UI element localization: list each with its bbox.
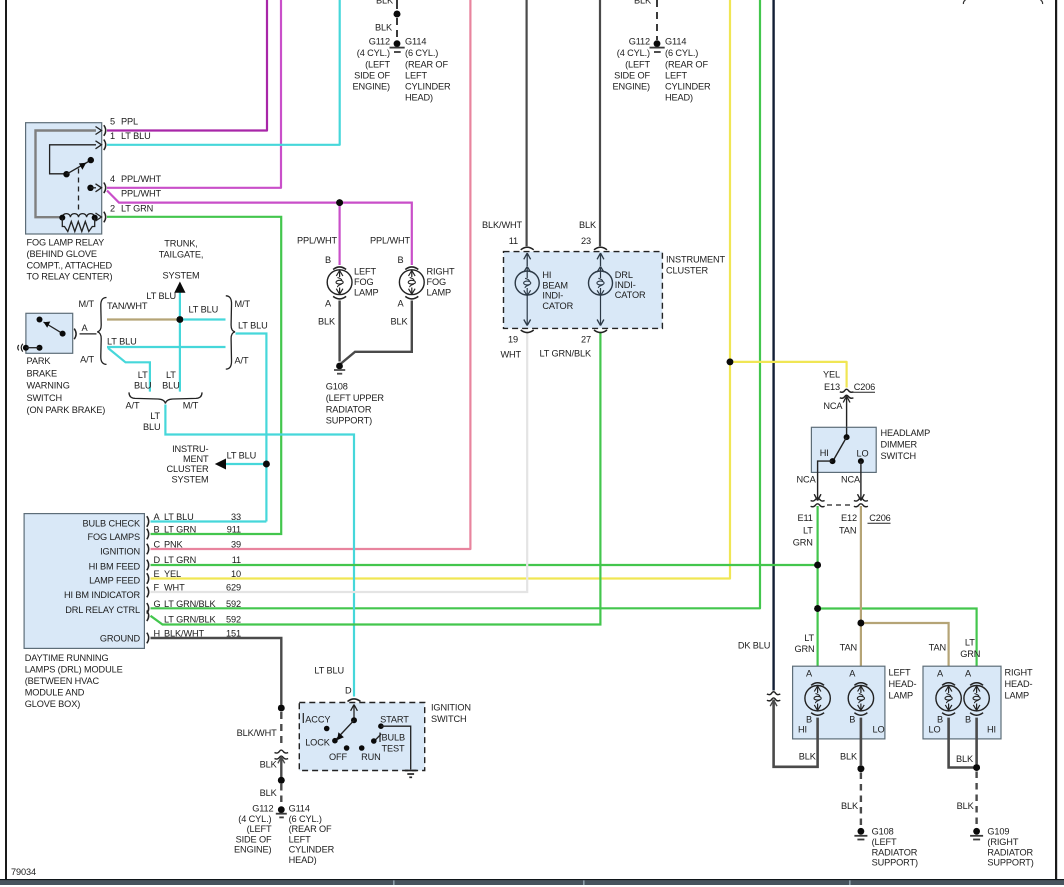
svg-text:D: D: [345, 686, 352, 696]
svg-text:10: 10: [231, 569, 241, 579]
svg-text:LT BLU: LT BLU: [146, 291, 176, 301]
svg-text:TEST: TEST: [382, 744, 406, 754]
svg-text:BLK: BLK: [260, 788, 278, 798]
svg-text:BLK: BLK: [840, 752, 858, 762]
START contact dot: [378, 723, 384, 729]
DRL module box: [24, 514, 144, 649]
svg-text:A: A: [849, 669, 856, 679]
svg-text:SIDE OF: SIDE OF: [354, 71, 390, 81]
svg-text:B: B: [397, 255, 403, 265]
svg-text:RADIATOR: RADIATOR: [326, 404, 372, 414]
svg-text:LAMP: LAMP: [889, 691, 914, 701]
svg-text:E: E: [154, 569, 160, 579]
wire PPL/WHT from relay pin 4 up to top edge: [107, 0, 281, 188]
svg-text:A: A: [965, 669, 972, 679]
junction dot E11/right headlamp: [814, 605, 821, 612]
svg-text:C206: C206: [854, 382, 875, 392]
svg-text:HEADLAMP: HEADLAMP: [881, 428, 931, 438]
svg-text:BLK: BLK: [634, 0, 652, 6]
left arrow to instrument cluster system: [215, 459, 226, 470]
svg-text:(6 CYL.): (6 CYL.): [289, 814, 322, 824]
svg-text:SUPPORT): SUPPORT): [872, 858, 918, 868]
chassis arcs left of box: [18, 344, 23, 352]
svg-text:BULB CHECK: BULB CHECK: [82, 519, 141, 529]
svg-text:LEFT: LEFT: [665, 71, 687, 81]
wire WHT pin F to cluster pin 19: [151, 332, 528, 592]
svg-text:11: 11: [232, 555, 241, 565]
svg-text:TAN/WHT: TAN/WHT: [107, 301, 148, 311]
svg-text:SYSTEM: SYSTEM: [162, 271, 199, 281]
svg-text:HI BM FEED: HI BM FEED: [89, 562, 141, 572]
svg-text:MENT: MENT: [183, 454, 209, 464]
svg-text:NCA: NCA: [823, 401, 843, 411]
wire LT BLU from right brace to module pin A vertical: [236, 334, 267, 522]
bottom toolbar band: [0, 879, 1064, 880]
junction dot on YEL wire: [727, 359, 734, 366]
svg-text:G114: G114: [665, 37, 686, 47]
svg-text:G112: G112: [252, 804, 273, 814]
svg-text:SUPPORT): SUPPORT): [326, 416, 372, 426]
relay switch common dot: [63, 171, 69, 177]
junction dot TAN: [858, 620, 865, 627]
svg-text:GRN: GRN: [960, 649, 980, 659]
relay internal wire pin1 to switch common: [50, 145, 96, 174]
svg-text:HEAD): HEAD): [289, 855, 317, 865]
junction dot: [394, 11, 401, 18]
wire LT GRN (DRL relay ctrl, pin G) up to top edge: [151, 0, 761, 608]
svg-text:HI: HI: [987, 724, 996, 734]
svg-text:BLU: BLU: [143, 422, 161, 432]
svg-text:592: 592: [226, 615, 241, 625]
svg-text:LEFT: LEFT: [405, 71, 427, 81]
wire BLK/WHT pin H to bottom ground: [151, 638, 282, 705]
junction LT BLU bulb check branch: [263, 461, 270, 468]
svg-text:WARNING: WARNING: [27, 381, 70, 391]
junction LT GRN E11/right headlamp node: [814, 605, 821, 612]
left headlamp box: [793, 666, 885, 739]
wire LT GRN to right headlamp HI: [818, 609, 977, 682]
wire LT GRN/BLK (2nd) to cluster pin 27: [151, 332, 601, 625]
up arrow to trunk tailgate system: [174, 282, 185, 293]
svg-text:C206: C206: [869, 513, 890, 523]
svg-text:TAN: TAN: [840, 643, 857, 653]
ignition common dot: [351, 717, 357, 723]
svg-text:(REAR OF: (REAR OF: [405, 60, 448, 70]
svg-text:INSTRUMENT: INSTRUMENT: [666, 255, 726, 265]
svg-text:M/T: M/T: [235, 299, 251, 309]
svg-text:MODULE AND: MODULE AND: [25, 688, 85, 698]
svg-text:RUN: RUN: [361, 752, 381, 762]
svg-text:DAYTIME RUNNING: DAYTIME RUNNING: [25, 653, 109, 663]
svg-text:PPL: PPL: [121, 117, 138, 127]
junction BLK/WHT ground lead: [278, 705, 285, 712]
svg-text:LT: LT: [803, 526, 813, 536]
svg-text:FOG: FOG: [427, 277, 447, 287]
svg-text:CYLINDER: CYLINDER: [405, 82, 451, 92]
svg-text:DRL RELAY CTRL: DRL RELAY CTRL: [65, 605, 140, 615]
svg-text:RADIATOR: RADIATOR: [872, 847, 918, 857]
park brake switch upper contact dot: [37, 317, 43, 323]
junction LT GRN E11/pin D node: [814, 562, 821, 569]
svg-text:CATOR: CATOR: [615, 290, 646, 300]
relay pin arrows: [96, 127, 102, 222]
svg-text:B: B: [965, 715, 971, 725]
top-right brace tick right: [1041, 0, 1043, 4]
svg-text:DRL: DRL: [615, 270, 633, 280]
svg-text:LT GRN: LT GRN: [164, 525, 196, 535]
svg-text:BLK: BLK: [260, 760, 278, 770]
svg-text:79034: 79034: [11, 867, 36, 877]
svg-text:LO: LO: [872, 724, 884, 734]
wire TAN to right headlamp LO: [861, 623, 949, 681]
svg-text:LT GRN/BLK: LT GRN/BLK: [164, 615, 217, 625]
svg-text:G108: G108: [326, 382, 348, 392]
svg-text:LT GRN/BLK: LT GRN/BLK: [164, 599, 217, 609]
wire LT BLU pin A up to park brake net: [151, 520, 267, 522]
svg-text:BLK: BLK: [376, 0, 394, 6]
svg-text:G109: G109: [987, 827, 1009, 837]
svg-text:39: 39: [231, 540, 241, 550]
dimmer switch common dot and blade: [846, 427, 848, 437]
wire LT GRN relay pin 2 to module pin B: [107, 217, 281, 534]
wire LT BLU branch to instrument cluster system arrow: [225, 463, 267, 465]
svg-text:ENGINE): ENGINE): [353, 82, 391, 92]
pin 27 cup and labels: [594, 330, 607, 333]
svg-text:BLK: BLK: [841, 801, 859, 811]
wire LT GRN E11 down to left headlamp HI: [816, 506, 818, 681]
svg-text:BLK: BLK: [375, 23, 393, 33]
svg-text:BLK: BLK: [390, 317, 408, 327]
junction PPL/WHT fog lamps: [336, 199, 343, 206]
svg-text:WHT: WHT: [500, 350, 521, 360]
wire BLK dashed to ground G112/G114 (left, x=397): [396, 0, 398, 9]
svg-text:COMPT., ATTACHED: COMPT., ATTACHED: [27, 260, 113, 270]
drl indicator bulb: [597, 253, 604, 266]
OFF contact dot: [344, 745, 350, 751]
svg-text:BEAM: BEAM: [542, 280, 568, 290]
wire BLK from break to left headlamp HI pin B: [774, 700, 818, 767]
svg-text:LT: LT: [804, 633, 814, 643]
headlamp dimmer switch box: [811, 427, 876, 472]
svg-text:SIDE OF: SIDE OF: [236, 834, 272, 844]
svg-text:CYLINDER: CYLINDER: [289, 845, 335, 855]
wire LT BLU from brace to ignition switch D: [165, 405, 354, 697]
svg-text:B: B: [849, 715, 855, 725]
park brake switch blade with arrow: [44, 322, 63, 334]
relay actuator dashed link: [78, 169, 80, 214]
wire BLK/WHT down to instrument cluster pin 11: [525, 0, 527, 246]
wire LT GRN pin D to E11 node: [151, 564, 818, 566]
svg-text:A/T: A/T: [80, 355, 94, 365]
svg-text:FOG LAMP RELAY: FOG LAMP RELAY: [27, 238, 105, 248]
svg-text:RIGHT: RIGHT: [427, 267, 455, 277]
BULB TEST contact: [374, 734, 381, 741]
ground G108 left radiator support: [858, 828, 865, 835]
svg-text:HEAD-: HEAD-: [1005, 679, 1033, 689]
svg-text:911: 911: [227, 525, 241, 535]
svg-text:LT: LT: [138, 370, 148, 380]
svg-text:LEFT: LEFT: [889, 667, 911, 677]
svg-text:A: A: [82, 323, 89, 333]
wire PPL from relay pin 5 up to top edge: [107, 0, 267, 131]
svg-text:BLK: BLK: [579, 220, 597, 230]
svg-text:INSTRU-: INSTRU-: [172, 444, 208, 454]
svg-text:4: 4: [110, 174, 115, 184]
svg-text:BLK: BLK: [956, 754, 974, 764]
wire PNK pin C of DRL module up to top edge: [151, 0, 471, 549]
wire BLK dashed to ground G112/G114 (right, x=657): [656, 0, 658, 40]
svg-text:NCA: NCA: [841, 475, 861, 485]
svg-text:CLUSTER: CLUSTER: [166, 464, 209, 474]
left brace M/T-A/T: [97, 298, 106, 365]
svg-text:ENGINE): ENGINE): [234, 845, 272, 855]
wire BLK left headlamp LO pin B down: [860, 718, 863, 765]
svg-text:(LEFT UPPER: (LEFT UPPER: [326, 393, 385, 403]
svg-text:G114: G114: [289, 804, 310, 814]
svg-text:A/T: A/T: [126, 401, 140, 411]
park brake warning switch box: [26, 313, 73, 353]
relay pin connector cups: [104, 125, 106, 222]
svg-text:PPL/WHT: PPL/WHT: [121, 174, 162, 184]
svg-text:G112: G112: [369, 37, 390, 47]
junction BLK ground splice: [278, 777, 285, 784]
svg-text:PPL/WHT: PPL/WHT: [297, 236, 338, 246]
wire BLK right headlamp HI pin B down: [975, 718, 978, 764]
svg-text:(RIGHT: (RIGHT: [987, 837, 1018, 847]
svg-text:SUPPORT): SUPPORT): [987, 858, 1033, 868]
svg-text:TAILGATE,: TAILGATE,: [159, 250, 204, 260]
ACCY contact dot: [324, 726, 330, 732]
relay switch blade with arrow: [67, 162, 89, 175]
svg-text:LOCK: LOCK: [305, 738, 331, 748]
connector C206 E13 break: [840, 389, 854, 392]
svg-text:PPL/WHT: PPL/WHT: [370, 236, 411, 246]
svg-text:INDI-: INDI-: [615, 280, 636, 290]
wire START to internal ground: [381, 726, 411, 769]
LOCK contact dot: [332, 738, 338, 744]
junction YEL branch: [727, 359, 734, 366]
svg-text:LEFT: LEFT: [289, 834, 311, 844]
svg-text:19: 19: [508, 335, 518, 345]
svg-text:E11: E11: [797, 513, 812, 523]
ground G112/G114 top-right: [654, 40, 661, 47]
svg-text:HI: HI: [798, 724, 807, 734]
svg-text:CLUSTER: CLUSTER: [666, 266, 709, 276]
svg-text:LT GRN: LT GRN: [121, 204, 153, 214]
svg-text:(6 CYL.): (6 CYL.): [405, 48, 438, 58]
wire LT BLU trunk/tailgate vertical with up arrow: [179, 292, 181, 392]
wire LT BLU (A/T): [107, 346, 226, 348]
svg-text:RADIATOR: RADIATOR: [987, 847, 1033, 857]
svg-text:SWITCH: SWITCH: [881, 451, 917, 461]
RUN contact dot: [359, 745, 365, 751]
ignition blade with arrow: [337, 720, 355, 739]
junction TAN E12 branch: [858, 620, 865, 627]
svg-text:LT BLU: LT BLU: [189, 305, 219, 315]
instrument cluster box: [504, 252, 663, 329]
svg-text:BLU: BLU: [134, 380, 152, 390]
svg-text:CYLINDER: CYLINDER: [665, 82, 711, 92]
svg-text:LO: LO: [929, 724, 941, 734]
svg-text:(LEFT: (LEFT: [365, 60, 390, 70]
dimmer LO contact dot to E12: [858, 458, 864, 464]
svg-text:(BETWEEN HVAC: (BETWEEN HVAC: [25, 676, 100, 686]
svg-text:(LEFT: (LEFT: [625, 60, 650, 70]
top-right brace tick left: [963, 0, 965, 4]
junction dot PPL/WHT: [336, 199, 343, 206]
svg-text:LT BLU: LT BLU: [227, 451, 257, 461]
svg-text:INDI-: INDI-: [542, 291, 563, 301]
junction BLK right headlamp ground: [973, 764, 980, 771]
ignition switch box: [299, 703, 424, 771]
wire BLK right fog lamp to G108: [341, 301, 412, 364]
svg-text:PPL/WHT: PPL/WHT: [121, 189, 162, 199]
svg-text:YEL: YEL: [823, 370, 840, 380]
wire YEL pin E of DRL module up to top edge: [151, 0, 731, 579]
junction TAN/WHT - LT BLU park brake: [177, 316, 184, 323]
wire BLK down to instrument cluster pin 23: [599, 0, 601, 246]
svg-text:M/T: M/T: [79, 299, 95, 309]
svg-text:YEL: YEL: [164, 569, 181, 579]
svg-text:LO: LO: [857, 449, 869, 459]
svg-text:HEAD): HEAD): [405, 93, 433, 103]
svg-text:LT GRN/BLK: LT GRN/BLK: [539, 349, 592, 359]
junction top BLK splice: [394, 11, 401, 18]
junction dot E11/pin D: [814, 562, 821, 569]
ground G108 fog lamps: [336, 363, 343, 370]
wire LT BLU A/T branch down to brace: [108, 348, 150, 392]
svg-text:GRN: GRN: [793, 538, 813, 548]
svg-text:11: 11: [509, 236, 518, 246]
svg-text:START: START: [380, 715, 409, 725]
svg-text:592: 592: [226, 599, 241, 609]
svg-text:B: B: [154, 525, 160, 535]
svg-text:B: B: [937, 715, 943, 725]
svg-text:LAMPS (DRL) MODULE: LAMPS (DRL) MODULE: [25, 665, 123, 675]
svg-text:BLK: BLK: [799, 752, 817, 762]
dimmer HI contact to E11: [818, 461, 833, 472]
hi beam indicator bulb: [524, 253, 531, 266]
relay pin 4 contact dot and stub: [87, 185, 93, 191]
svg-text:LAMP: LAMP: [1005, 691, 1030, 701]
svg-text:BLK/WHT: BLK/WHT: [237, 728, 278, 738]
svg-text:5: 5: [110, 117, 115, 127]
NCA leads with down arrows into C206 connector: [814, 472, 821, 500]
svg-text:SWITCH: SWITCH: [431, 714, 467, 724]
wire LT BLU from relay pin 1 up to top edge: [107, 0, 340, 145]
svg-text:A/T: A/T: [235, 356, 249, 366]
svg-text:2: 2: [110, 204, 115, 214]
svg-text:LT: LT: [965, 638, 975, 648]
svg-text:PNK: PNK: [164, 540, 184, 550]
svg-text:SWITCH: SWITCH: [27, 393, 63, 403]
svg-text:HI: HI: [820, 448, 829, 458]
svg-text:(REAR OF: (REAR OF: [665, 60, 708, 70]
svg-text:A: A: [397, 299, 404, 309]
svg-text:LT GRN: LT GRN: [164, 555, 196, 565]
svg-text:LEFT: LEFT: [354, 267, 376, 277]
svg-text:CATOR: CATOR: [542, 301, 573, 311]
park brake lower contact and ground stub: [23, 345, 29, 351]
svg-text:(REAR OF: (REAR OF: [289, 824, 332, 834]
junction dot: [858, 765, 865, 772]
svg-text:(6 CYL.): (6 CYL.): [665, 48, 698, 58]
ignition switch pin D cup: [348, 699, 361, 702]
svg-text:(4 CYL.): (4 CYL.): [238, 814, 271, 824]
svg-text:BULB: BULB: [382, 733, 406, 743]
svg-text:GROUND: GROUND: [100, 634, 141, 644]
svg-text:E13: E13: [824, 382, 840, 392]
svg-text:(BEHIND GLOVE: (BEHIND GLOVE: [27, 249, 97, 259]
svg-text:1: 1: [110, 131, 115, 141]
connector C206 E11/E12 cups: [811, 498, 825, 501]
wire DK BLU from top edge down to connector break: [772, 0, 774, 691]
svg-text:G112: G112: [629, 37, 650, 47]
svg-text:LT BLU: LT BLU: [121, 131, 151, 141]
svg-text:IGNITION: IGNITION: [100, 547, 140, 557]
svg-text:LT BLU: LT BLU: [314, 666, 344, 676]
svg-text:DK BLU: DK BLU: [738, 641, 770, 651]
svg-text:G114: G114: [405, 37, 426, 47]
wire YEL branch to C206 E13: [730, 362, 847, 388]
svg-text:LAMP: LAMP: [427, 288, 452, 298]
svg-text:TO RELAY CENTER): TO RELAY CENTER): [27, 272, 113, 282]
pin D arrow into box: [351, 705, 358, 721]
svg-text:TRUNK,: TRUNK,: [164, 239, 197, 249]
svg-text:23: 23: [581, 236, 591, 246]
svg-text:BRAKE: BRAKE: [27, 368, 58, 378]
fog lamp relay box: [26, 123, 102, 234]
DK BLU inline connector break: [767, 698, 780, 701]
svg-text:HEAD): HEAD): [665, 93, 693, 103]
svg-text:A: A: [325, 299, 332, 309]
pin A stub to brace: [80, 333, 97, 335]
under brace merging A/T M/T: [129, 392, 202, 403]
svg-text:HEAD-: HEAD-: [889, 679, 917, 689]
svg-text:HI BM INDICATOR: HI BM INDICATOR: [64, 590, 140, 600]
wire PPL/WHT drop to left fog lamp: [339, 203, 341, 265]
svg-text:D: D: [154, 555, 161, 565]
svg-text:GLOVE BOX): GLOVE BOX): [25, 699, 81, 709]
relay coil resistor zigzag: [62, 218, 94, 232]
svg-text:B: B: [325, 255, 331, 265]
svg-text:LAMP: LAMP: [354, 288, 379, 298]
svg-text:DIMMER: DIMMER: [881, 440, 918, 450]
svg-text:ENGINE): ENGINE): [613, 82, 651, 92]
svg-text:A: A: [937, 669, 944, 679]
svg-text:(LEFT: (LEFT: [872, 837, 897, 847]
svg-text:C: C: [154, 540, 161, 550]
junction dot pin H wire: [278, 705, 285, 712]
module pin cups: [147, 516, 149, 527]
svg-text:RIGHT: RIGHT: [1005, 667, 1033, 677]
svg-text:LT BLU: LT BLU: [107, 337, 137, 347]
junction dot TAN/WHT - LT BLU: [177, 316, 184, 323]
wire TAN/WHT (M/T): [107, 318, 180, 320]
right page border: [1055, 0, 1057, 879]
ground G112/G114 bottom: [278, 806, 285, 813]
svg-text:TAN: TAN: [839, 526, 856, 536]
ignition internal ground: [405, 770, 417, 772]
svg-text:TAN: TAN: [929, 643, 946, 653]
wire LT BLU (M/T right): [180, 318, 226, 320]
svg-text:SYSTEM: SYSTEM: [171, 474, 208, 484]
svg-text:BLK: BLK: [318, 317, 336, 327]
ground G112/G114 top-left: [394, 40, 401, 47]
park brake pin A cup: [74, 329, 76, 340]
svg-text:OFF: OFF: [329, 752, 348, 762]
right brace M/T-A/T: [226, 296, 235, 369]
